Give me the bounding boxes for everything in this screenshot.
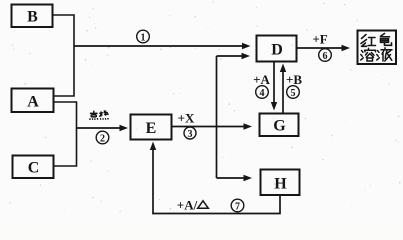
label circled 7 — [231, 199, 244, 212]
box G — [260, 114, 299, 137]
svg-text:2: 2 — [100, 134, 105, 145]
svg-text:E: E — [146, 120, 157, 137]
wire bracket A-C — [54, 102, 77, 166]
svg-text:1: 1 — [141, 33, 146, 44]
label circled 6 — [319, 49, 332, 62]
label ye (liquid char) — [377, 48, 392, 61]
return wire H to E — [150, 142, 280, 214]
svg-text:+F: +F — [312, 32, 327, 47]
box B — [12, 5, 53, 28]
box E — [131, 115, 172, 140]
label circled 1 — [137, 30, 150, 43]
svg-text:+A: +A — [253, 72, 270, 87]
label dian (ignite char 1) — [90, 111, 98, 120]
arrow 5: G up to D — [280, 64, 286, 113]
arrow: junction to H — [217, 175, 253, 181]
svg-text:5: 5 — [291, 88, 296, 99]
arrow: junction to D (lower) — [217, 53, 251, 59]
box D — [257, 36, 297, 62]
label rong (dissolve char) — [361, 48, 376, 61]
box C — [13, 156, 54, 179]
svg-text:A: A — [27, 94, 39, 111]
label circled 2 — [96, 131, 109, 144]
label ran (ignite char 2) — [99, 111, 108, 120]
svg-text:+X: +X — [178, 111, 195, 126]
wire junction vertical — [216, 56, 218, 178]
label triangle (heat) — [198, 201, 209, 209]
arrow 1: bracket to D (upper) — [74, 43, 251, 49]
arrow 2: ignite, A/C bracket to E — [77, 125, 129, 131]
box H — [261, 170, 300, 196]
svg-text:H: H — [274, 176, 287, 193]
svg-text:4: 4 — [260, 88, 265, 99]
svg-text:B: B — [27, 9, 38, 26]
box red solution — [358, 31, 397, 65]
label se (color char) — [381, 34, 392, 46]
svg-text:3: 3 — [188, 129, 193, 140]
svg-text:D: D — [271, 42, 283, 59]
svg-text:7: 7 — [235, 202, 240, 213]
wire bracket B-A — [53, 15, 74, 96]
arrow 3: E to G (+X) — [172, 123, 252, 129]
svg-text:+B: +B — [286, 72, 302, 87]
arrow 6: D to red solution (+F) — [297, 45, 350, 51]
box A — [12, 89, 54, 113]
label circled 3 — [184, 127, 196, 140]
label circled 4 — [256, 86, 269, 99]
svg-text:6: 6 — [323, 51, 328, 62]
label hong (red char 1) — [361, 35, 376, 47]
svg-text:G: G — [273, 118, 286, 135]
arrow 4: D down to G — [271, 63, 277, 111]
label circled 5 — [287, 86, 300, 99]
svg-text:+A/: +A/ — [177, 198, 198, 213]
svg-text:C: C — [28, 160, 40, 177]
